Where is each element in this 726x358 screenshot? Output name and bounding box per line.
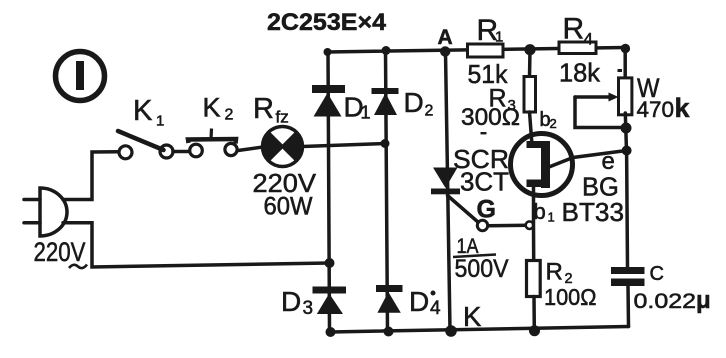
wire lamp to bridge AC1 node <box>303 144 386 147</box>
svg-text:D: D <box>404 87 424 118</box>
svg-text:220V: 220V <box>34 237 86 267</box>
junction emitter node <box>622 146 632 156</box>
svg-text:K: K <box>133 95 153 127</box>
svg-text:R: R <box>563 13 585 46</box>
svg-text:3CT: 3CT <box>460 167 509 197</box>
ink dash <box>481 132 487 134</box>
gate wire <box>448 196 479 223</box>
wire plug top lead to K1 <box>63 152 119 200</box>
switch K1 <box>118 131 173 159</box>
diode D1 <box>312 85 345 117</box>
wire bottom rail <box>330 327 629 333</box>
junction top-left rail corner <box>324 48 332 56</box>
wire R4 corner down to W <box>623 48 627 78</box>
svg-text:μ: μ <box>696 287 711 314</box>
wire gate to b1 <box>488 223 530 227</box>
svg-text:60W: 60W <box>264 193 313 221</box>
svg-text:2C253E×4: 2C253E×4 <box>267 9 386 36</box>
svg-text:470: 470 <box>637 97 675 122</box>
potentiometer W <box>575 78 632 128</box>
wire R2 to rail <box>532 297 536 331</box>
wire W to emitter node <box>625 113 626 151</box>
node A <box>440 46 450 56</box>
svg-text:C: C <box>650 263 664 285</box>
wire b1 lead <box>532 186 536 261</box>
svg-text:100Ω: 100Ω <box>544 284 597 310</box>
svg-text:1: 1 <box>495 29 503 46</box>
resistor R3 <box>524 77 536 113</box>
svg-text:2: 2 <box>550 116 557 131</box>
wire emitter to node <box>549 151 627 168</box>
svg-text:500V: 500V <box>455 255 509 283</box>
wire plug bottom lead to bridge AC2 node <box>63 223 330 267</box>
wire K2 to lamp <box>238 147 263 151</box>
diode D2 <box>372 88 399 115</box>
ink speck <box>431 291 436 296</box>
switch K2 (push button) <box>188 129 237 157</box>
svg-text:1: 1 <box>548 210 555 225</box>
node K junction <box>445 325 457 337</box>
svg-text:4: 4 <box>584 30 593 49</box>
plug P (mains) <box>24 188 67 236</box>
wire top positive rail <box>327 48 625 53</box>
junction AC2 (D1/D3) <box>325 258 335 268</box>
svg-text:e: e <box>602 148 615 175</box>
transistor BG BT33 (UJT) <box>511 134 573 196</box>
svg-text:b: b <box>534 199 546 224</box>
svg-text:1: 1 <box>156 113 164 130</box>
svg-text:18k: 18k <box>559 58 601 88</box>
svg-text:R: R <box>253 93 274 125</box>
ink tick near W lead <box>618 69 623 72</box>
resistor R4 <box>559 42 596 54</box>
wire K1 to K2 <box>173 150 190 154</box>
junction D4/rail <box>384 327 394 337</box>
junction D3/rail <box>326 327 336 337</box>
svg-text:1: 1 <box>361 103 371 123</box>
junction R1/R3/R4 <box>524 44 535 55</box>
svg-text:4: 4 <box>430 298 441 319</box>
svg-text:G: G <box>477 196 496 224</box>
svg-text:0.022: 0.022 <box>634 289 697 313</box>
svg-text:k: k <box>675 93 691 123</box>
junction gate/b1 small circle <box>526 221 534 229</box>
svg-text:D: D <box>281 286 301 317</box>
gate terminal circle <box>477 220 487 230</box>
diode D3 <box>313 287 347 315</box>
resistor R1 <box>468 44 504 57</box>
lamp Rfz <box>263 127 303 167</box>
capacitor C <box>611 267 645 286</box>
diode D4 <box>376 285 403 313</box>
junction R2/rail <box>529 325 540 336</box>
junction D2 top <box>382 46 391 55</box>
svg-text:2: 2 <box>425 103 434 120</box>
svg-text:R: R <box>546 259 563 286</box>
svg-text:K: K <box>203 93 221 123</box>
wire emitter node down to C <box>625 151 629 267</box>
wire R3 to b2 <box>530 112 533 145</box>
svg-text:BT33: BT33 <box>562 197 625 227</box>
svg-text:3: 3 <box>303 298 314 319</box>
junction wiper/W bottom <box>621 123 632 134</box>
svg-text:2: 2 <box>225 107 234 124</box>
resistor R2 <box>527 261 541 297</box>
wire right bridge vertical <box>386 51 388 332</box>
wire junction to R3 <box>528 50 532 77</box>
junction R4 corner <box>621 44 630 53</box>
SCR 3CT <box>431 168 460 195</box>
svg-text:fz: fz <box>276 108 289 127</box>
svg-text:D: D <box>409 286 429 317</box>
tilde AC mark <box>69 265 87 269</box>
wire SCR anode branch <box>446 52 451 330</box>
junction AC1 (lamp to D2/D4) <box>381 139 390 148</box>
svg-text:300Ω: 300Ω <box>461 104 520 131</box>
fraction bar <box>453 255 496 258</box>
svg-text:K: K <box>463 301 482 332</box>
wire left bridge vertical <box>328 52 330 332</box>
figure number I (circled) <box>56 52 105 101</box>
wire C to rail <box>626 286 630 327</box>
svg-text:A: A <box>438 26 453 49</box>
